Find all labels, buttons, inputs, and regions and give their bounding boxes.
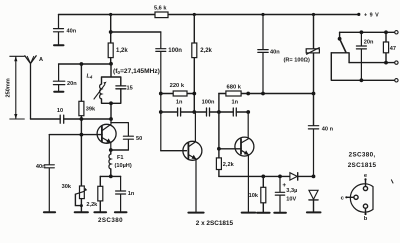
capacitor 40n (base, left, to ground) bbox=[44, 135, 54, 212]
dimension 250mm bbox=[10, 56, 24, 119]
node rail junctions bbox=[109, 13, 360, 16]
node tank bottom bbox=[109, 101, 113, 105]
resistor 680k bbox=[219, 93, 248, 95]
svg-text:40n: 40n bbox=[36, 164, 46, 170]
node caps row junctions bbox=[217, 110, 221, 114]
contact bar bbox=[331, 53, 349, 63]
resistor 1,2k bbox=[108, 43, 113, 58]
wire caps row y=112 bbox=[161, 111, 248, 113]
capacitor 10 (series antenna) bbox=[60, 115, 64, 123]
capacitor 15 bbox=[116, 86, 126, 89]
svg-text:F1: F1 bbox=[117, 155, 124, 161]
svg-text:1n: 1n bbox=[176, 99, 183, 105]
ground Q2 emitter bbox=[188, 212, 203, 214]
svg-text:100n: 100n bbox=[202, 99, 215, 105]
wire to Q2 base bbox=[161, 150, 187, 152]
wire 680k branch down bbox=[218, 94, 220, 149]
svg-text:2,2k: 2,2k bbox=[223, 162, 235, 168]
capacitor 100n bbox=[207, 108, 210, 116]
capacitor 20n (right) bbox=[356, 32, 366, 80]
capacitor 1n (Q1 emitter) bbox=[116, 176, 126, 211]
svg-text:2,2k: 2,2k bbox=[86, 202, 98, 208]
wire base row y=135 bbox=[49, 134, 102, 136]
terminals bbox=[395, 31, 398, 34]
potentiometer 30k (regeneration) bbox=[80, 186, 85, 199]
svg-text:15: 15 bbox=[127, 86, 133, 92]
tank circuit loop bbox=[102, 64, 121, 119]
svg-text:1,2k: 1,2k bbox=[116, 48, 128, 54]
svg-text:2 x 2SC1815: 2 x 2SC1815 bbox=[196, 220, 234, 227]
wire antenna row y=119 bbox=[31, 118, 112, 120]
svg-text:39k: 39k bbox=[86, 106, 96, 112]
capacitor 40n (right, rail decoupling) bbox=[258, 15, 268, 94]
node bottom row junctions bbox=[261, 175, 265, 179]
wire left row y=64 bbox=[59, 63, 111, 65]
svg-text:40 n: 40 n bbox=[322, 127, 334, 133]
ground bbox=[307, 211, 321, 213]
choke L (R=100 ohm) bbox=[313, 15, 315, 126]
svg-text:20n: 20n bbox=[364, 40, 374, 46]
svg-text:1n: 1n bbox=[128, 191, 135, 197]
resistor 2,2k (Q3 base) bbox=[218, 149, 220, 177]
ground bbox=[94, 211, 106, 213]
svg-text:20n: 20n bbox=[67, 81, 77, 87]
svg-text:50: 50 bbox=[136, 136, 142, 142]
node switch subcircuit junctions bbox=[360, 30, 364, 34]
capacitor 1n bbox=[178, 108, 181, 116]
wire +9V supply rail bbox=[59, 14, 359, 16]
wire collector row y=93.5 bbox=[248, 93, 313, 95]
svg-text:3,3µ: 3,3µ bbox=[286, 188, 297, 194]
resistor 47 bbox=[385, 32, 387, 62]
svg-text:L4: L4 bbox=[87, 74, 93, 80]
transistor case pinout TO-92 bbox=[350, 184, 373, 212]
transistor Q2 2SC1815 bbox=[183, 141, 202, 160]
capacitor 1n bbox=[233, 108, 236, 116]
svg-text:10k: 10k bbox=[249, 193, 259, 199]
wire emitter row Q1 bbox=[111, 149, 129, 151]
svg-text:10V: 10V bbox=[286, 197, 296, 203]
transistor Q3 2SC1815 bbox=[235, 137, 254, 156]
transistor Q1 2SC380 bbox=[97, 124, 116, 143]
switch (key) subcircuit bbox=[340, 31, 395, 33]
svg-text:5,6 k: 5,6 k bbox=[154, 5, 167, 11]
inductor L4 (variable) bbox=[100, 84, 102, 99]
svg-text:(R= 100Ω): (R= 100Ω) bbox=[284, 58, 311, 64]
node bbox=[80, 117, 84, 121]
resistor 5,6k bbox=[155, 12, 168, 18]
ground (bar under 40n top-left) bbox=[54, 44, 64, 46]
resistor 220k bbox=[161, 93, 195, 95]
ground bbox=[44, 211, 55, 213]
capacitor 40n (top left, rail to ground) bbox=[54, 15, 64, 45]
resistor 2,2k (Q1 emitter) bbox=[99, 176, 101, 211]
ground bbox=[257, 212, 270, 214]
capacitor 100n (coupling, top) bbox=[156, 32, 166, 151]
node 100n column junctions bbox=[159, 92, 163, 96]
ground bbox=[115, 211, 127, 213]
capacitor 50 (feedback) bbox=[111, 123, 134, 150]
svg-text:2SC1815: 2SC1815 bbox=[348, 162, 377, 169]
diode (horizontal) bbox=[290, 173, 297, 180]
svg-text:40n: 40n bbox=[67, 28, 77, 34]
ground Q3 emitter bbox=[242, 212, 256, 214]
svg-text:2,2k: 2,2k bbox=[200, 48, 212, 54]
svg-text:250mm: 250mm bbox=[6, 78, 12, 97]
node base row / 39k column bbox=[80, 133, 84, 137]
resistor 10k bbox=[262, 176, 264, 212]
ground bbox=[75, 211, 88, 213]
svg-text:b: b bbox=[364, 216, 368, 222]
antenna bbox=[25, 56, 36, 119]
svg-text:40n: 40n bbox=[270, 50, 280, 56]
wire to 100n column bbox=[111, 31, 161, 33]
svg-text:10: 10 bbox=[57, 108, 63, 114]
diode (vertical, to ground) bbox=[309, 190, 318, 199]
svg-text:100n: 100n bbox=[168, 48, 182, 54]
wire bottom row y=176.4 bbox=[219, 175, 314, 177]
svg-text:+ 9 V: + 9 V bbox=[364, 12, 379, 18]
svg-text:(10µH): (10µH) bbox=[115, 163, 132, 169]
wire Q3 base row bbox=[219, 148, 241, 150]
bracket to bottom wire bbox=[331, 53, 394, 81]
capacitor 40n (series, coupling to diode) bbox=[308, 126, 318, 177]
resistor 2,2k (Q2 collector) bbox=[193, 15, 195, 113]
svg-text:2SC380: 2SC380 bbox=[98, 217, 123, 224]
svg-text:A: A bbox=[39, 57, 43, 63]
inductor F1 10uH bbox=[110, 150, 112, 176]
svg-text:220 k: 220 k bbox=[170, 83, 185, 89]
svg-text:47: 47 bbox=[390, 46, 396, 52]
node Q2 collector column junctions bbox=[192, 92, 196, 96]
capacitor 3,3u electrolytic bbox=[275, 176, 284, 212]
wire column x=110.7 from rail bbox=[110, 15, 112, 44]
node bbox=[109, 30, 113, 34]
ground (bar under 20n) bbox=[54, 91, 63, 93]
ground bbox=[274, 212, 286, 214]
svg-text:2SC380,: 2SC380, bbox=[349, 152, 376, 159]
middle wire bbox=[349, 62, 395, 64]
resistor 39k bbox=[80, 64, 82, 186]
svg-text:30k: 30k bbox=[62, 184, 72, 190]
svg-text:1n: 1n bbox=[232, 99, 239, 105]
node collector row junctions bbox=[246, 92, 250, 96]
capacitor 20n (antenna tank, to ground) bbox=[53, 64, 64, 91]
svg-text:680 k: 680 k bbox=[227, 84, 242, 90]
node bbox=[109, 62, 113, 66]
switch blade bbox=[340, 39, 346, 52]
wire bottom-left row bbox=[100, 175, 120, 177]
